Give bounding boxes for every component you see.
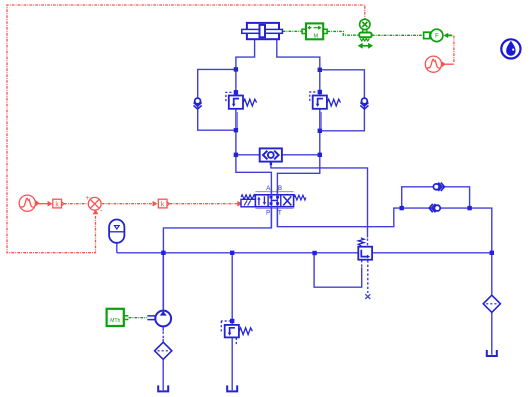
gain K2 (158, 199, 167, 208)
proportional directional valve V1 body (255, 195, 293, 207)
port tick of source S1 (36, 201, 39, 206)
svg-text:k: k (55, 201, 59, 208)
svg-text:k: k (161, 201, 165, 208)
junction node T to check pair left (400, 206, 404, 210)
wire right check valve bypass (320, 70, 365, 131)
cylinder C1 (double rod jack) (242, 23, 283, 39)
shuttle valve SV1 (260, 148, 282, 165)
proportional directional valve V1 rails (255, 192, 293, 209)
accumulator A1 (109, 220, 124, 243)
wire left cylinder chamber to counterbalance branch, valve port A/P, down to supply bus (163, 39, 271, 310)
position transducer X1 (360, 19, 370, 29)
wire gain K2 to valve solenoid input (170, 203, 238, 205)
svg-text:+: + (86, 195, 90, 202)
wire system relief branch to tank (231, 253, 233, 325)
svg-text:B: B (278, 186, 282, 192)
wire valve port lines crossing icon (271, 189, 277, 228)
wire left check valve bypass (198, 69, 236, 130)
valve V1 right spring (294, 195, 306, 200)
junction system relief pilot tap (230, 319, 234, 323)
valve V1 closed-centre square marks (270, 196, 280, 205)
mass M1 (302, 23, 327, 39)
junction bus at compensator pilot (312, 251, 316, 255)
wire pump suction to filter and tank (162, 326, 164, 330)
pump P1 (147, 311, 171, 327)
wire summer to gain K2 (102, 203, 156, 205)
wire pilot overlay below left counterbalance valve (236, 112, 238, 129)
wire pump outlet riser to supply bus (162, 253, 164, 311)
svg-text:M: M (314, 33, 319, 39)
wire endstop to force source F1 (372, 34, 424, 36)
port tick of source S2 (442, 62, 445, 67)
wire feedback loop from position transducer around border into summer minus input (7, 5, 365, 253)
wire prime mover to pump shaft (129, 317, 148, 319)
check valve CV3 (back-pressure, flow right) (433, 183, 444, 191)
wire load-sensing line shuttle output to compensator spring (271, 162, 368, 238)
junction node check pair right (467, 206, 471, 210)
junction shuttle left tap (234, 153, 238, 157)
svg-text:-: - (100, 206, 103, 215)
force source F1 (424, 29, 443, 41)
junction bus at pump riser (161, 251, 165, 255)
prime mover MTh (107, 309, 124, 326)
junction shuttle right tap (318, 153, 322, 157)
tank T1 under pump (158, 385, 168, 391)
junction left branch to check bypass (234, 67, 238, 71)
pressure compensator PC1 (358, 238, 372, 260)
wire mass M1 to endstop (327, 31, 358, 35)
junction right counterbalance pilot tap (318, 90, 322, 94)
wire compensator pilot from supply bus (314, 253, 362, 287)
arrow feedback into summer bottom port (94, 211, 98, 215)
svg-text:A: A (266, 186, 270, 192)
wire pump supply bus (117, 252, 492, 254)
wire pilot overlay below right counterbalance valve (320, 112, 322, 129)
wire gain K1 to summer (64, 203, 87, 205)
junction right branch to check bypass (318, 68, 322, 72)
tank T3 right return (487, 350, 497, 356)
counterbalance relief valve R2 (right) (310, 92, 341, 109)
check valve CV4 (back-pressure, flow left) (429, 204, 440, 212)
summing junction U1 (88, 197, 101, 210)
svg-text:MTh: MTh (110, 318, 120, 324)
junction left counterbalance pilot tap (234, 90, 238, 94)
valve V1 crossed-arrows square (283, 196, 291, 205)
valve V1 left spring (241, 195, 255, 200)
svg-text:P: P (266, 211, 270, 217)
wire compensator plugged pilot port (367, 260, 369, 293)
wire return line to right filter and tank (470, 208, 492, 295)
tank T2 under system relief (227, 385, 237, 391)
wire shuttle valve right port (282, 154, 320, 156)
wire right cylinder chamber to counterbalance branch, valve port B/T, to back-pressure checks (277, 39, 402, 227)
arrow signal input into force source F1 (445, 33, 453, 37)
svg-text:F: F (435, 34, 439, 40)
wire back-pressure check pair loop (402, 187, 470, 208)
svg-text:T: T (278, 211, 282, 217)
junction bus at return line (490, 251, 494, 255)
wire signal source S2 output to force source input (445, 63, 454, 65)
fluid properties icon (501, 39, 520, 58)
junction right check return (318, 129, 322, 133)
counterbalance relief valve R1 (left) (226, 92, 257, 109)
valve V1 proportional solenoid (241, 199, 255, 207)
wire shuttle valve left port (236, 154, 260, 156)
signal source S1 (command) (19, 195, 35, 211)
valve V1 parallel-arrows square (257, 196, 266, 205)
wire source S1 to gain K1 (39, 203, 51, 205)
wire cylinder rod to mass M1 (283, 30, 302, 32)
check valve CV2 (right bypass) (360, 98, 368, 109)
signal source S2 (load force demand) (425, 56, 441, 72)
wire accumulator stub (116, 243, 118, 253)
filter F1 under pump (155, 342, 172, 359)
junction bus at system relief branch (230, 251, 234, 255)
junction left check return (234, 128, 238, 132)
endstop with friction (359, 30, 372, 48)
gain K1 (53, 199, 62, 208)
system relief valve R3 (221, 321, 253, 345)
check valve CV1 (left bypass) (194, 98, 202, 109)
filter F2 right return (483, 295, 500, 312)
